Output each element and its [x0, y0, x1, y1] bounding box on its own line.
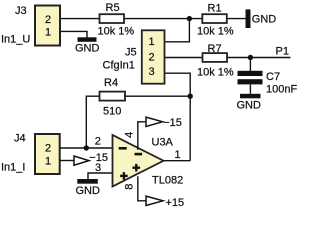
ground symbol at op-amp pin 3 — [76, 179, 101, 197]
wire R5 to R1 — [124, 18, 203, 20]
power port -15 top arrow — [146, 117, 182, 129]
svg-text:3: 3 — [148, 66, 154, 78]
wire J4 pin2 to op-amp inverting input — [60, 147, 113, 149]
svg-text:−15: −15 — [163, 117, 182, 129]
wire junction to C7 — [249, 58, 251, 72]
svg-text:+15: +15 — [166, 197, 185, 209]
wire R4 right to feedback node — [125, 95, 190, 97]
svg-text:2: 2 — [45, 143, 51, 155]
svg-text:100nF: 100nF — [266, 84, 297, 96]
svg-text:GND: GND — [75, 43, 100, 55]
svg-text:R1: R1 — [208, 3, 222, 15]
wire J5 pin2 to R7 — [165, 57, 203, 59]
power port +15 bottom arrow — [146, 196, 184, 209]
connector J3 — [35, 6, 60, 46]
junction dot top rail — [187, 16, 192, 21]
svg-text:In1_I: In1_I — [1, 161, 25, 173]
wire J3 pin1 to GND — [60, 31, 87, 37]
svg-text:2: 2 — [95, 136, 101, 148]
svg-text:In1_U: In1_U — [1, 34, 30, 46]
op-amp U3A — [113, 135, 164, 187]
resistor R5 — [100, 14, 125, 23]
svg-text:8: 8 — [123, 184, 135, 190]
ground symbol right of R1 — [246, 9, 277, 28]
svg-text:10k 1%: 10k 1% — [197, 67, 234, 79]
svg-text:GND: GND — [237, 100, 262, 112]
wire R4 left to input node — [86, 96, 99, 148]
svg-text:R7: R7 — [208, 43, 222, 55]
connector J4 — [35, 134, 60, 174]
svg-text:R5: R5 — [106, 2, 120, 14]
svg-text:1: 1 — [175, 149, 181, 161]
wire op-amp non-inverting input to GND — [88, 173, 113, 179]
svg-text:J5: J5 — [125, 47, 137, 59]
power port -15 left arrow — [74, 152, 108, 165]
resistor R1 — [202, 14, 227, 23]
wire R1 to GND — [227, 18, 247, 20]
ground symbol below C7 — [237, 94, 262, 112]
svg-text:TL082: TL082 — [152, 175, 183, 187]
svg-text:3: 3 — [95, 162, 101, 174]
svg-text:C7: C7 — [266, 71, 280, 83]
wire J5 pin1 to top rail — [165, 19, 190, 42]
svg-text:10k 1%: 10k 1% — [197, 26, 234, 38]
junction dot at C7 — [248, 55, 253, 60]
svg-text:1: 1 — [148, 36, 154, 48]
capacitor C7 — [238, 71, 263, 85]
svg-text:10k 1%: 10k 1% — [98, 26, 135, 38]
wire J3 pin2 to R5 — [60, 18, 100, 20]
junction dot feedback node — [188, 94, 193, 99]
svg-text:CfgIn1: CfgIn1 — [103, 60, 135, 72]
junction dot input node — [84, 145, 89, 150]
svg-text:2: 2 — [148, 51, 154, 63]
wire R7 to P1 — [227, 57, 291, 59]
connector J5 — [142, 30, 165, 83]
svg-text:U3A: U3A — [152, 136, 174, 148]
wire op-amp pin4 to -15 — [138, 122, 147, 150]
wire op-amp pin8 to +15 — [138, 176, 147, 201]
svg-text:P1: P1 — [276, 46, 289, 58]
svg-text:GND: GND — [252, 14, 276, 26]
wire J4 pin1 to -15 arrow — [60, 160, 75, 162]
svg-text:R4: R4 — [104, 77, 118, 89]
svg-text:J3: J3 — [15, 5, 27, 17]
resistor R4 — [100, 92, 126, 101]
wire C7 to GND — [249, 84, 251, 93]
svg-text:1: 1 — [45, 155, 51, 167]
svg-text:GND: GND — [76, 185, 101, 197]
ground symbol below J3 — [75, 37, 100, 54]
resistor R7 — [203, 53, 228, 62]
svg-text:1: 1 — [45, 27, 51, 39]
svg-text:4: 4 — [124, 132, 136, 138]
svg-text:J4: J4 — [14, 133, 26, 145]
wire op-amp output — [164, 160, 191, 162]
svg-text:2: 2 — [45, 14, 51, 26]
svg-text:510: 510 — [103, 105, 121, 117]
wire J5 pin3 to feedback riser — [165, 73, 191, 161]
